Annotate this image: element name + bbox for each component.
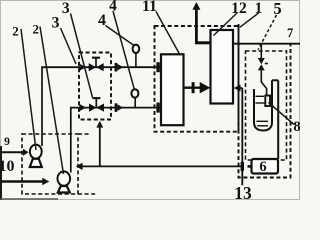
svg-text:7: 7 <box>287 26 293 40</box>
leader lines <box>21 11 294 174</box>
gauge 4b circle <box>131 89 138 97</box>
svg-text:8: 8 <box>293 119 300 135</box>
valve 3b handle <box>92 97 100 99</box>
junction cross <box>241 162 244 171</box>
gauge 4a stem <box>135 53 137 68</box>
riser arrow to valve box <box>99 127 101 166</box>
feed pipe into vessel 8 <box>261 70 266 95</box>
pipe: upper feed riser from pump A <box>41 66 43 146</box>
dashed pump box 2 <box>22 134 78 194</box>
svg-text:3: 3 <box>52 15 60 32</box>
svg-text:2: 2 <box>33 22 40 37</box>
svg-text:4: 4 <box>98 12 106 29</box>
leader 8 <box>269 103 295 125</box>
leader 3a <box>61 28 77 64</box>
pump 2b circle <box>58 171 71 185</box>
bold tee tick at column A lower inlet <box>156 103 159 113</box>
feed arrow 9 <box>1 151 25 153</box>
svg-text:1: 1 <box>255 0 263 17</box>
dashed valve box 3 <box>79 53 111 120</box>
gauge 4b stem <box>134 97 136 108</box>
column 11 vessel <box>161 54 184 125</box>
pipe: upper feed line <box>42 66 161 68</box>
leader 5 <box>258 15 277 50</box>
sparger element in vessel 8 <box>265 96 270 107</box>
pump 2b base <box>58 186 70 193</box>
pipe: lower feed riser from pump B <box>70 107 72 173</box>
vent arrow up from column 12 <box>195 9 198 44</box>
column 12 vessel <box>211 30 234 104</box>
leader 2a <box>21 29 36 150</box>
feed arrow 10 <box>1 180 44 182</box>
pipe 7 outlet line <box>233 43 300 45</box>
valve 3a handle <box>92 57 100 59</box>
box 6 stub <box>248 165 252 168</box>
dark bottom border segment <box>0 198 58 200</box>
arrow on upper pipe (right of valve) <box>115 63 118 72</box>
transfer arrow column 11 to 12 <box>184 86 202 88</box>
vertical recycle pipe 13 <box>241 88 243 185</box>
arrow on upper pipe (left) <box>79 64 86 71</box>
liquid level lines <box>256 96 269 126</box>
dashed box 5 <box>246 51 287 160</box>
leader 3b <box>71 14 93 98</box>
valve 3b body <box>89 104 104 112</box>
dashed box 11 <box>155 26 239 132</box>
dashed outer box 1 (right side) <box>239 24 291 178</box>
pump 2a base <box>30 159 42 167</box>
overflow bridge <box>272 79 278 81</box>
leader 12 <box>214 13 238 36</box>
pipe: lower feed line <box>71 107 161 109</box>
svg-text:13: 13 <box>234 183 252 200</box>
gauge 4a circle <box>133 45 140 53</box>
overflow downcomer to box 6 <box>277 80 279 159</box>
svg-text:2: 2 <box>12 24 19 39</box>
box 6 <box>252 159 279 174</box>
valve 3a body <box>89 63 104 71</box>
bold tee tick at column A upper inlet <box>156 62 159 72</box>
valve 5 side tick <box>265 63 268 65</box>
valve 3b stem <box>95 99 97 108</box>
svg-text:9: 9 <box>4 135 10 148</box>
return line to pump box <box>80 165 242 167</box>
pump box bottom edge overshoot <box>78 193 97 195</box>
leader 11 <box>156 12 180 55</box>
svg-text:6: 6 <box>259 159 266 175</box>
vessel 8 body <box>254 80 272 130</box>
leader 1 <box>240 13 259 27</box>
svg-text:10: 10 <box>0 158 15 175</box>
svg-text:5: 5 <box>273 0 281 18</box>
valve 5 riser <box>260 44 262 59</box>
svg-text:4: 4 <box>109 0 117 15</box>
leader 4a <box>106 26 135 46</box>
dark left border segment <box>0 146 2 200</box>
return arrow into column 12 <box>236 87 242 89</box>
svg-text:11: 11 <box>142 0 157 15</box>
leader 4b <box>113 11 134 89</box>
svg-text:12: 12 <box>231 0 247 17</box>
arrow on lower pipe (left) <box>79 104 86 111</box>
pump 2a circle <box>30 145 42 159</box>
svg-text:3: 3 <box>62 0 70 17</box>
pump box top edge overshoot <box>78 133 90 135</box>
valve 3a stem <box>95 58 97 67</box>
leader 2b <box>40 27 64 175</box>
valve 5 body <box>258 58 265 70</box>
arrow on lower pipe (right of valve) <box>115 103 118 112</box>
